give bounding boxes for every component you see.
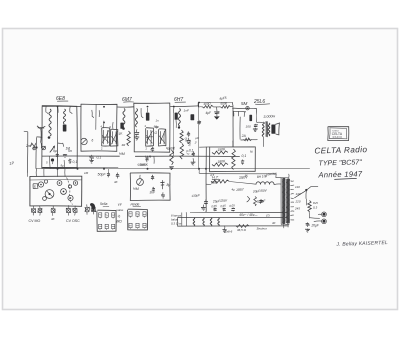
grid cap 100pF (246, 124, 258, 128)
gang rotor big (45, 190, 54, 199)
wire 25L6 plate (255, 108, 257, 122)
svg-text:9μ: 9μ (53, 149, 57, 153)
tube label 6E8 (56, 96, 68, 102)
transformer core line (285, 179, 287, 223)
bypass cap C1 (68, 159, 77, 164)
volume pot wire (153, 156, 155, 163)
tube 25L6 pins (233, 111, 246, 116)
svg-text:50pF: 50pF (98, 173, 107, 177)
svg-text:μF: μF (195, 136, 200, 140)
svg-text:0,1: 0,1 (73, 160, 78, 164)
rect diode squiggle (247, 196, 250, 202)
svg-text:0,1: 0,1 (242, 154, 247, 158)
svg-text:6: 6 (92, 139, 94, 143)
gang circle d (73, 181, 77, 185)
tap label 130 (296, 192, 301, 196)
electrode slug 25L6 (249, 115, 252, 121)
page-left wire (24, 131, 28, 172)
svg-text:5M: 5M (241, 101, 248, 106)
svg-text:Secteur: Secteur (257, 227, 268, 231)
grid hook box1 a (46, 106, 48, 114)
detector cap (186, 131, 190, 143)
label 4uF5 top (219, 96, 227, 101)
svg-text:4R: 4R (122, 143, 126, 147)
label 50K under (137, 162, 146, 167)
svg-text:40: 40 (272, 221, 276, 225)
svg-text:0,05: 0,05 (220, 204, 226, 209)
speaker (271, 123, 279, 135)
wire transformer top (276, 174, 289, 178)
label under T1 (53, 149, 72, 153)
label U.R (145, 155, 152, 159)
wire to output (232, 108, 235, 147)
IF transformer box T2 (134, 103, 170, 153)
wire box1 inner vertical (56, 106, 59, 168)
wire ballast down (309, 212, 320, 218)
label socket left (100, 202, 109, 207)
svg-text:½: ½ (118, 215, 121, 219)
cap 50pF (98, 172, 111, 178)
svg-text:4F: 4F (114, 180, 118, 184)
cathode loop wire (240, 117, 258, 140)
ground heater (223, 226, 227, 233)
wire top bus (42, 106, 199, 107)
heater resistor d (218, 218, 220, 226)
dial cord curve (67, 178, 73, 205)
selector wire (306, 186, 318, 198)
antenna (37, 126, 45, 143)
svg-text:0,05: 0,05 (229, 203, 235, 208)
svg-text:3.000w: 3.000w (263, 114, 275, 119)
trimmer CV MO b (38, 206, 42, 216)
svg-text:20μF: 20μF (311, 224, 320, 228)
trimmer mid (51, 206, 55, 222)
gang inner frame (29, 179, 81, 181)
label 1nF (184, 109, 190, 113)
tap label 245 (294, 207, 300, 211)
cap det2 (197, 120, 201, 125)
label 3000ohm (263, 114, 275, 119)
socket diagram right (128, 209, 148, 230)
svg-text:1M: 1M (84, 171, 89, 175)
gang rotor CV1 (38, 182, 43, 187)
label 9u box1 (46, 161, 64, 168)
hook contact 1M (58, 143, 71, 151)
pen annotation (90, 203, 94, 211)
power transformer winding 2 (287, 179, 290, 224)
B+ node wires (206, 182, 281, 185)
power transformer winding 1 (282, 178, 285, 224)
variable arrow C (42, 146, 46, 150)
svg-text:2x6-6: 2x6-6 (224, 230, 233, 234)
oscillator coil L1 (48, 109, 52, 139)
tube label 25L6 (253, 99, 270, 105)
output transformer secondary (268, 123, 270, 136)
svg-text:5x6a: 5x6a (100, 202, 107, 206)
svg-text:4μ: 4μ (232, 188, 236, 192)
grid hook box1 b (57, 106, 59, 112)
svg-text:Hinde: Hinde (131, 203, 140, 207)
socket middle text (117, 203, 124, 224)
label ohm right (266, 214, 270, 218)
svg-text:1M5: 1M5 (258, 200, 264, 204)
HT dropper (211, 180, 229, 184)
junction dots top (57, 102, 200, 108)
wire heater feed bus (190, 211, 288, 213)
svg-text:2A: 2A (241, 134, 246, 138)
junction dots bus (57, 168, 208, 170)
label 4R3 (122, 143, 126, 147)
wire 6H7 vertical (173, 107, 175, 157)
svg-text:E: E (34, 184, 36, 188)
heater bus bottom (177, 225, 288, 227)
cathode blob (51, 158, 54, 164)
heater bus top (177, 217, 288, 219)
resistor 150K (212, 147, 228, 154)
electrolytic 8uF (160, 180, 170, 189)
tap label 220 (295, 200, 301, 204)
label fil (245, 174, 248, 178)
antenna arrow annotation (30, 143, 38, 149)
label half meg (119, 152, 125, 156)
tube label 6H7 (174, 97, 186, 103)
AVC cap pair (151, 147, 155, 180)
selector arm (294, 189, 307, 198)
T1 top hooks (92, 110, 100, 118)
output transformer primary (262, 122, 264, 137)
wire gang drops (44, 169, 65, 177)
wire 6H7 drop (174, 107, 177, 128)
gang rotor CV2b (61, 189, 67, 195)
coil slug det2 (191, 114, 195, 120)
speaker feed wires (257, 122, 266, 152)
filter cap C10 (204, 198, 228, 205)
svg-text:8μ: 8μ (167, 183, 171, 187)
resistor 500K vert (180, 144, 190, 160)
label 10K4W (266, 171, 278, 176)
gang small circle a (43, 197, 47, 201)
wire heater hooks (182, 212, 187, 226)
resistor 5M on wire (233, 107, 257, 110)
output transformer core (266, 121, 267, 137)
svg-text:½M: ½M (133, 187, 139, 191)
title CELTA Radio (314, 145, 367, 155)
wire AVC bus (42, 155, 240, 157)
grid leads T1 (103, 121, 113, 130)
volume pot 1/2M (133, 175, 143, 191)
svg-text:300Ω: 300Ω (203, 101, 211, 106)
label 2x6 6 (224, 230, 233, 234)
trimmer CV MO a (31, 206, 36, 216)
label 40v (272, 221, 276, 225)
terminal jack 1 (322, 212, 327, 217)
heater resistor a (193, 218, 195, 226)
heater series resistor (236, 225, 249, 228)
svg-text:4F: 4F (51, 217, 55, 221)
IF transformer box T1 (81, 104, 117, 151)
svg-text:½M: ½M (119, 152, 125, 156)
svg-text:5n: 5n (68, 149, 72, 153)
cap second (116, 173, 120, 179)
transformer frame (281, 177, 290, 224)
svg-text:0,3: 0,3 (313, 206, 318, 210)
label HT (210, 176, 220, 185)
line cap c (229, 203, 235, 211)
PSU box (209, 147, 255, 172)
screen resistor R3 (118, 131, 130, 146)
wire lower link (42, 166, 118, 168)
AVC box (130, 173, 170, 201)
cap mid (135, 129, 140, 134)
wire caps to bus (107, 169, 109, 172)
label 20uF 50V (252, 188, 268, 193)
oscillator coil L2 (63, 109, 65, 124)
B+ rail (198, 101, 232, 103)
tube label 6M7 (122, 97, 134, 103)
dial lamp square (33, 184, 38, 189)
svg-text:60v~ / 48v—: 60v~ / 48v— (240, 213, 259, 217)
line cap a (211, 204, 217, 211)
resistor 25ohm label (250, 150, 253, 154)
gang small circle b (44, 180, 47, 183)
svg-text:1n: 1n (156, 119, 160, 123)
trimmer right pair b (91, 205, 95, 215)
title TYPE BC57 (318, 158, 362, 167)
title Annee 1947 (317, 169, 363, 179)
label secteur (257, 227, 268, 231)
gang circle e (68, 185, 71, 188)
tap label 110 (295, 185, 300, 189)
ballast resistor (308, 201, 318, 212)
stamp CELTA RADIO (328, 127, 349, 141)
label 10nF (187, 139, 192, 147)
wire choke link (232, 141, 234, 147)
label 50pf small (114, 180, 118, 184)
svg-text:5000: 5000 (220, 101, 227, 105)
filter cap C11 (256, 199, 266, 204)
cathode resistor 2A (241, 134, 252, 141)
ground transformer (305, 229, 310, 233)
svg-text:fil: fil (245, 174, 248, 178)
svg-text:36,5 Ω: 36,5 Ω (237, 228, 247, 232)
small wire jacks link (306, 199, 308, 206)
coil slug T3 (175, 113, 178, 120)
wire antenna feed (36, 137, 42, 169)
tuning gang box (30, 176, 82, 206)
gang rotor CV2 (57, 181, 62, 186)
svg-text:220: 220 (295, 200, 301, 204)
ground 100pF (253, 128, 258, 132)
detector coil (178, 109, 181, 129)
IF can T1b (110, 129, 118, 146)
heater bus left end (176, 218, 179, 226)
choke coil L4 (135, 109, 137, 128)
bypass cap C6 (89, 155, 101, 164)
gang circle c (68, 195, 73, 200)
label 500K right (167, 146, 176, 151)
wire jacks (314, 214, 322, 221)
pin digits T2 (145, 124, 169, 151)
filter choke (256, 174, 274, 185)
resistor label 5M (241, 101, 248, 106)
choke coil L3 (122, 109, 125, 130)
svg-text:(7): (7) (266, 214, 270, 218)
svg-text:50mK: 50mK (137, 162, 146, 167)
trimmer CV OSC a (66, 205, 71, 215)
AF coupling cap (140, 156, 149, 167)
label socket right (131, 203, 141, 207)
label 6uH (155, 125, 159, 129)
svg-text:245: 245 (294, 207, 300, 211)
svg-text:Année 1947: Année 1947 (317, 169, 363, 179)
wire PSU to heater (199, 169, 206, 213)
label 36ohm (237, 228, 247, 232)
screen divider (95, 104, 97, 130)
ground decoupling dark (214, 116, 220, 119)
decoupling resistor 5000 (213, 101, 233, 108)
svg-text:9μ: 9μ (61, 164, 65, 168)
heater resistor b (203, 218, 205, 226)
heater resistor c (210, 218, 212, 226)
coil slug T2 (146, 113, 150, 121)
tube circle box2 bottom (81, 138, 94, 144)
wire ground bus (36, 168, 310, 170)
svg-text:valve: valve (117, 208, 124, 212)
svg-text:0,1: 0,1 (97, 156, 102, 160)
PSU cap 0.1 (241, 154, 246, 165)
small cap box1 (56, 154, 59, 157)
main vertical B+ (198, 103, 200, 169)
svg-text:110: 110 (295, 185, 300, 189)
svg-text:6μμ: 6μμ (154, 125, 159, 128)
tuning arrow 2 (50, 146, 55, 152)
label 4u psu (232, 188, 236, 192)
label 4u5 (210, 173, 215, 177)
svg-text:0,05: 0,05 (211, 204, 217, 209)
heater note (171, 214, 182, 226)
resistor 180K (212, 159, 228, 166)
wire PSU vertical (199, 147, 209, 212)
terminal jack 2 (322, 219, 327, 224)
IF can T2a (146, 128, 154, 146)
wire speaker down (275, 160, 277, 173)
svg-text:CV MO: CV MO (29, 219, 41, 223)
svg-text:MΩ: MΩ (117, 220, 123, 224)
resistor chain (169, 150, 173, 170)
stage box 6E8 (42, 106, 77, 168)
svg-text:CELTA Radio: CELTA Radio (314, 145, 367, 155)
label uF left (195, 136, 200, 145)
wire bus right tail (199, 174, 276, 178)
coil core slug (63, 125, 67, 132)
IF can T2b (155, 129, 166, 146)
label 150V (239, 175, 249, 180)
transformer taps (290, 181, 294, 220)
pin digits T1 (101, 125, 112, 151)
grid hook box1 c (70, 106, 73, 113)
T2 grid hook (141, 108, 148, 118)
svg-text:U,R: U,R (145, 155, 152, 159)
wire box1 bottom drops (50, 156, 65, 168)
IF can T1a (102, 128, 110, 146)
svg-text:0,1: 0,1 (189, 149, 194, 153)
socket diagram left (97, 210, 116, 231)
svg-text:RADIO: RADIO (333, 135, 343, 139)
ground box1 mid (63, 155, 67, 158)
smoothing cap 20uF (306, 222, 320, 227)
label 130uF (191, 193, 200, 198)
label 350V (236, 187, 245, 192)
svg-text:2nF: 2nF (25, 144, 33, 148)
wire transformer tails (283, 224, 288, 228)
trimmer right pair a (85, 204, 90, 214)
svg-text:CV OSC: CV OSC (66, 219, 80, 223)
trimmer CV OSC b (73, 206, 77, 216)
decoupling resistor 300 (198, 101, 213, 108)
antenna coupling cap 2nF (25, 144, 36, 150)
dropper resistor (232, 149, 236, 170)
wire gang top link (27, 168, 36, 176)
decoupling cap 4uF (206, 107, 220, 116)
label 60v 48v (240, 213, 259, 217)
coil slug T1 (120, 123, 123, 129)
ground line caps (201, 205, 206, 211)
label CV MO (29, 219, 41, 223)
signature (335, 240, 388, 248)
label 1M gang (84, 171, 89, 175)
diode load resistor R5 (180, 130, 189, 143)
cap 6H7 lower (189, 149, 195, 157)
svg-text:½: ½ (250, 150, 253, 154)
label CV OSC (66, 219, 80, 223)
svg-text:6v5: 6v5 (313, 201, 318, 205)
bleeder resistor (254, 197, 265, 206)
svg-text:100: 100 (246, 124, 251, 128)
line cap b (220, 204, 226, 211)
ground mid (134, 135, 139, 140)
ground AVC (161, 192, 165, 198)
svg-text:J350°: J350° (236, 187, 245, 192)
AVC cap 30u (150, 187, 157, 194)
svg-text:TYPE "BC57": TYPE "BC57" (318, 158, 362, 167)
svg-text:0,3 Ω/m: 0,3 Ω/m (171, 222, 182, 226)
ground 500K (191, 158, 196, 165)
margin annotation 1P (9, 160, 15, 166)
label 1n box3 (156, 119, 160, 123)
